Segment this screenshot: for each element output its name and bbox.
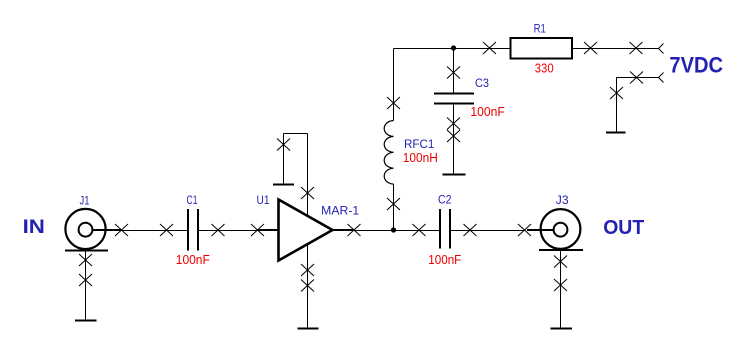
X marker C1 right pin	[212, 224, 225, 236]
X marker wire end (7VDC rail)	[630, 42, 643, 54]
svg-text:R1: R1	[534, 22, 546, 36]
X marker U1 input pin	[251, 224, 264, 236]
wire U1 top to ground	[284, 133, 308, 135]
X marker RFC1 top pin	[387, 97, 400, 109]
X marker RFC1 bottom pin	[387, 198, 400, 210]
wire C2 to J3	[470, 230, 525, 232]
wire C3 top pin	[453, 49, 455, 93]
ground (U1 top)	[273, 184, 294, 186]
ground (C3)	[443, 174, 466, 176]
capacitor C3	[434, 94, 474, 124]
X marker ground pin (C3)	[447, 130, 460, 142]
wire C1 to U1	[218, 230, 258, 232]
open end chevron (7VDC rail)	[659, 44, 664, 54]
resistor R1	[511, 38, 573, 59]
X marker R1 right pin	[584, 42, 597, 54]
svg-text:OUT: OUT	[603, 216, 644, 239]
wire J1 to C1	[122, 230, 167, 232]
svg-text:IN: IN	[23, 216, 45, 238]
ground (J3)	[551, 328, 573, 330]
svg-text:RFC1: RFC1	[404, 137, 435, 151]
wire node up to RFC1	[393, 184, 395, 231]
X marker U1 pin3 (bottom)	[301, 264, 314, 276]
svg-text:100nF: 100nF	[428, 252, 461, 267]
svg-text:100nH: 100nH	[403, 150, 438, 165]
svg-text:C3: C3	[475, 76, 489, 90]
X marker wire end (supply stub)	[630, 72, 643, 84]
svg-text:100nF: 100nF	[470, 104, 504, 119]
capacitor C1	[167, 209, 219, 251]
X marker C2 left pin	[413, 224, 426, 236]
wire RFC1 top to rail	[393, 49, 395, 121]
X marker J3 ground pin	[554, 256, 567, 268]
wire 7VDC supply stub	[617, 78, 659, 133]
op-amp U1 (MAR-1 MMIC amplifier)	[258, 134, 354, 329]
ground (supply stub)	[606, 132, 626, 134]
inductor RFC1	[384, 121, 393, 185]
X marker R1 left pin	[483, 42, 496, 54]
X marker C3 bottom pin	[447, 118, 460, 130]
svg-text:330: 330	[535, 61, 554, 76]
ground (U1 bottom)	[298, 328, 319, 330]
wire J1 ground stub	[85, 251, 87, 321]
wire node to C2	[394, 230, 420, 232]
X marker J1 output pin	[115, 224, 128, 236]
X marker ground symbol pin (J1)	[79, 274, 92, 286]
wire J3 ground stub	[560, 250, 562, 328]
svg-text:7VDC: 7VDC	[669, 53, 723, 78]
ground stem (U1 top)	[283, 134, 285, 185]
capacitor C2	[419, 209, 470, 249]
open end chevron (supply stub)	[659, 73, 664, 83]
X marker ground pin (supply stub)	[610, 87, 623, 99]
svg-text:C1: C1	[187, 193, 198, 207]
X marker J3 input pin	[518, 224, 531, 236]
X marker U1 pin2 (top)	[301, 187, 314, 199]
svg-text:J3: J3	[556, 193, 569, 207]
wire top rail (7VDC net)	[394, 48, 659, 50]
svg-text:C2: C2	[438, 193, 452, 207]
X marker U1 output pin	[348, 224, 361, 236]
X marker ground pin (U1 bottom)	[301, 280, 314, 292]
X marker ground symbol pin (J3)	[554, 279, 567, 291]
svg-text:J1: J1	[80, 194, 90, 208]
wire U1 output to node	[354, 230, 394, 232]
connector J1	[65, 209, 122, 251]
X marker J1 ground pin	[79, 254, 92, 266]
ground stem (C3)	[453, 124, 455, 175]
X marker C1 left pin	[160, 224, 173, 236]
X marker ground pin (U1 top)	[277, 139, 290, 151]
junction node (C3 / R1)	[451, 45, 456, 50]
X marker C3 top pin	[447, 67, 460, 79]
connector J3	[527, 209, 583, 250]
X marker C2 right pin	[464, 224, 477, 236]
svg-text:MAR-1: MAR-1	[321, 204, 359, 218]
svg-text:100nF: 100nF	[176, 252, 210, 267]
ground (J1)	[75, 320, 97, 322]
junction node (RFC1 / C2)	[391, 227, 396, 232]
svg-text:U1: U1	[257, 193, 270, 207]
